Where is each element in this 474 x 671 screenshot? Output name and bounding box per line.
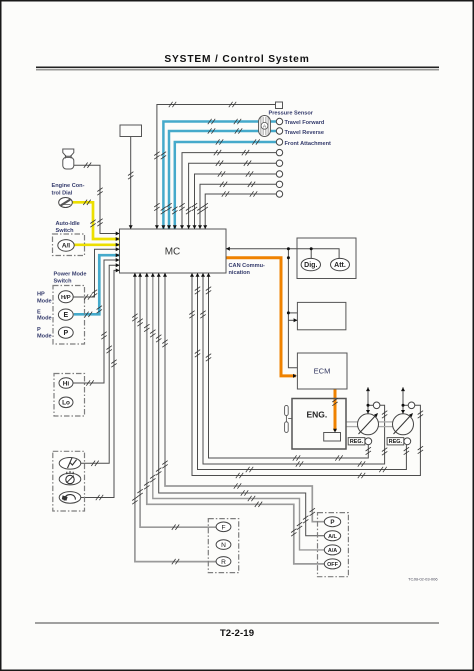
svg-text:A/L: A/L	[328, 534, 337, 540]
svg-text:Dig.: Dig.	[304, 262, 317, 269]
svg-text:Engine Con-: Engine Con-	[52, 183, 85, 189]
svg-text:Mode: Mode	[37, 334, 52, 340]
svg-text:Travel Forward: Travel Forward	[285, 120, 325, 126]
svg-text:CAN Commu-: CAN Commu-	[229, 263, 265, 269]
svg-text:trol Dial: trol Dial	[52, 190, 73, 196]
svg-text:N: N	[221, 542, 226, 549]
svg-text:F: F	[221, 524, 225, 531]
svg-text:T2-2-19: T2-2-19	[220, 628, 254, 639]
svg-text:Pressure Sensor: Pressure Sensor	[269, 111, 314, 117]
svg-text:R: R	[221, 559, 226, 566]
svg-text:Mode: Mode	[37, 316, 52, 322]
svg-text:Front Attachment: Front Attachment	[285, 141, 332, 147]
svg-text:Switch: Switch	[54, 279, 73, 285]
svg-text:Hi: Hi	[63, 380, 70, 387]
svg-text:REG.: REG.	[350, 439, 364, 445]
svg-text:ECM: ECM	[314, 367, 331, 376]
svg-text:A/I: A/I	[62, 243, 70, 250]
svg-text:A/A: A/A	[328, 548, 337, 554]
svg-text:OFF: OFF	[327, 562, 338, 568]
svg-text:P: P	[330, 519, 334, 526]
svg-text:P: P	[37, 327, 41, 333]
svg-text:Travel Reverse: Travel Reverse	[285, 130, 325, 136]
svg-text:A: A	[263, 124, 266, 129]
svg-text:Power Mode: Power Mode	[54, 272, 87, 278]
svg-text:SYSTEM / Control System: SYSTEM / Control System	[164, 54, 309, 65]
svg-text:E: E	[63, 312, 68, 319]
svg-text:E: E	[37, 309, 41, 315]
svg-text:ENG.: ENG.	[307, 410, 328, 420]
svg-text:MC: MC	[165, 247, 181, 258]
svg-text:TCJB-02-03-006: TCJB-02-03-006	[408, 577, 438, 582]
svg-text:Lo: Lo	[62, 400, 70, 407]
svg-text:REG.: REG.	[389, 439, 403, 445]
svg-text:Att.: Att.	[334, 262, 346, 269]
svg-text:H/P: H/P	[61, 295, 71, 301]
svg-text:nication: nication	[229, 270, 251, 276]
svg-text:HP: HP	[37, 292, 45, 298]
svg-text:Switch: Switch	[56, 228, 75, 234]
svg-text:Auto-Idle: Auto-Idle	[56, 221, 80, 227]
svg-text:Mode: Mode	[37, 298, 52, 304]
svg-text:P: P	[63, 330, 68, 337]
